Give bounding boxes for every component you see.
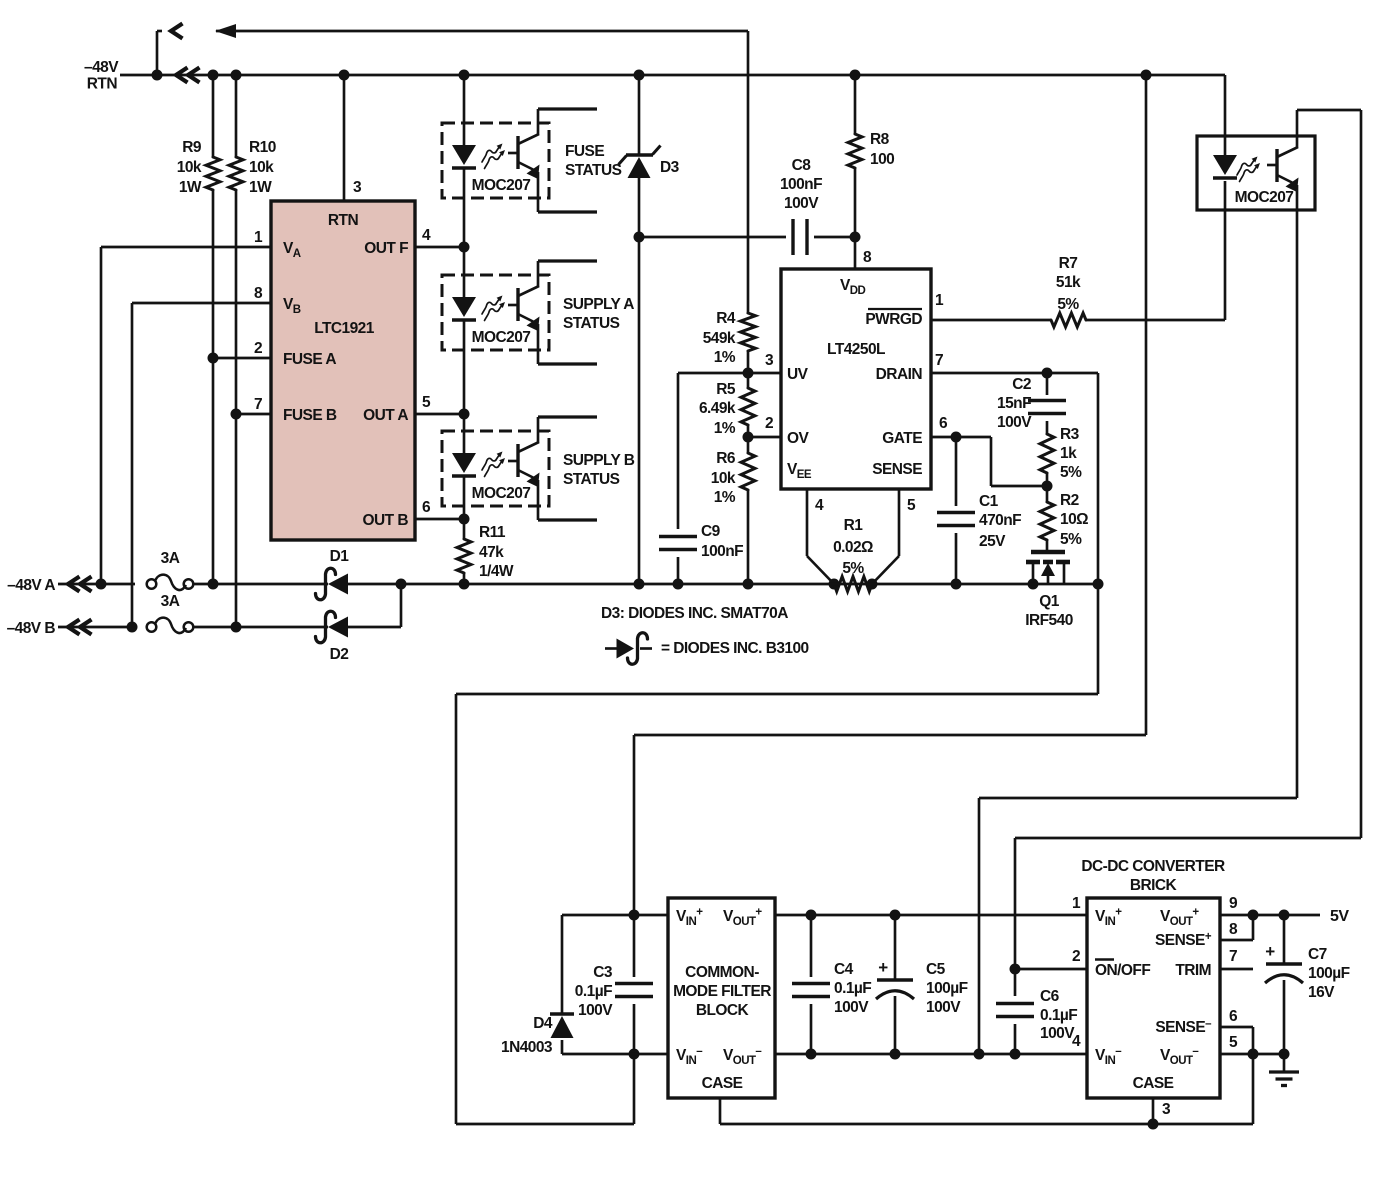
connector chevrons -48V A	[68, 577, 92, 592]
junction emitter loop / VOUT- row	[974, 1049, 985, 1060]
wire VOUT+ output	[1220, 914, 1320, 917]
junction C4 bottom	[806, 1049, 817, 1060]
svg-text:C3: C3	[593, 964, 613, 981]
wire stub up to top line	[156, 31, 159, 75]
ground symbol	[1269, 1054, 1299, 1086]
svg-text:1%: 1%	[714, 489, 736, 506]
junction C4 top	[806, 910, 817, 921]
label C7 100µF 16V	[1308, 946, 1350, 1001]
label GATE	[882, 430, 922, 447]
junction GATE / C1	[951, 432, 962, 443]
junction RTN / rail top	[1141, 70, 1152, 81]
svg-text:25V: 25V	[979, 533, 1006, 550]
junction D3 / rail	[634, 579, 645, 590]
junction UV node	[743, 368, 754, 379]
wire VIN+ row	[562, 914, 668, 917]
pin number 3 (CASE)	[1162, 1101, 1171, 1118]
diode D2 (B3100)	[316, 611, 349, 643]
label R7 51k 5%	[1056, 255, 1081, 313]
svg-text:1k: 1k	[1060, 445, 1077, 462]
svg-text:STATUS: STATUS	[563, 315, 620, 332]
label LTC1921	[314, 320, 375, 337]
svg-text:LT4250L: LT4250L	[827, 341, 885, 358]
junction VIN- node	[629, 1049, 640, 1060]
svg-text:C9: C9	[701, 523, 721, 540]
wire top return line (y=31)	[216, 30, 748, 33]
arrow on top return line	[215, 24, 236, 38]
wire R6 bottom to rail	[747, 490, 750, 584]
svg-text:100V: 100V	[926, 999, 961, 1016]
pin number 7 (FUSE B)	[254, 396, 262, 413]
junction C9 / rail	[673, 579, 684, 590]
junction R9 / rail A	[208, 579, 219, 590]
svg-text:COMMON-: COMMON-	[685, 964, 759, 981]
wire UV pin 3	[748, 372, 781, 375]
label R5 6.49k 1%	[699, 381, 736, 437]
svg-text:SENSE+: SENSE+	[1155, 931, 1212, 949]
label C2 15nF 100V	[997, 376, 1032, 431]
svg-text:16V: 16V	[1308, 984, 1335, 1001]
svg-text:GATE: GATE	[882, 430, 922, 447]
pin number 7 (DRAIN)	[935, 352, 943, 369]
junction R10 / rail B	[231, 622, 242, 633]
wire CASE line riser	[1252, 1054, 1255, 1124]
svg-text:R6: R6	[716, 450, 736, 467]
label D1	[330, 548, 350, 565]
svg-text:BLOCK: BLOCK	[696, 1002, 750, 1019]
resistor R2	[1040, 502, 1054, 540]
wire -48V A entry	[58, 583, 135, 586]
label VIN+ (brick)	[1095, 907, 1122, 929]
label R4 549k 1%	[703, 310, 736, 366]
label VOUT- (brick)	[1160, 1046, 1199, 1068]
label MOC207 (U2)	[472, 177, 531, 194]
label VOUT- (filter)	[723, 1046, 762, 1068]
wire R7 to opto LED	[1086, 181, 1225, 320]
label ON/OFF with overline	[1095, 960, 1150, 980]
svg-text:CASE: CASE	[702, 1075, 743, 1092]
svg-text:STATUS: STATUS	[565, 162, 622, 179]
svg-text:10Ω: 10Ω	[1060, 511, 1088, 528]
svg-text:3A: 3A	[161, 550, 180, 567]
resistor R8	[848, 134, 862, 168]
svg-text:7: 7	[254, 396, 262, 413]
wire RTN rail (y=75)	[120, 74, 1225, 77]
svg-text:BRICK: BRICK	[1130, 877, 1178, 894]
svg-text:MOC207: MOC207	[472, 177, 531, 194]
label C1 470nF 25V	[979, 493, 1021, 550]
wire C7 top	[1283, 915, 1286, 964]
wire C9 bottom	[677, 557, 680, 584]
wire R5 top	[747, 373, 750, 388]
junction OUT B	[459, 514, 470, 525]
wire RTN into U6 LED	[1224, 75, 1227, 156]
svg-text:DC-DC CONVERTER: DC-DC CONVERTER	[1081, 858, 1225, 875]
svg-text:D3: DIODES INC. SMAT70A: D3: DIODES INC. SMAT70A	[601, 605, 788, 622]
wire C1 top	[955, 437, 958, 506]
label C6 0.1µF 100V	[1040, 988, 1077, 1042]
wire C2 top	[1046, 373, 1049, 395]
svg-text:STATUS: STATUS	[563, 471, 620, 488]
label R2 10Ω 5%	[1060, 492, 1088, 548]
svg-text:= DIODES INC. B3100: = DIODES INC. B3100	[661, 640, 809, 657]
svg-text:7: 7	[1229, 948, 1237, 965]
junction C8 / R8 / VDD	[850, 232, 861, 243]
label SUPPLY A STATUS	[563, 296, 634, 332]
pin number 3 (UV)	[765, 352, 774, 369]
svg-text:100: 100	[870, 151, 894, 168]
svg-text:C8: C8	[792, 157, 812, 174]
junction C7 top	[1279, 910, 1290, 921]
label CASE (brick)	[1133, 1075, 1174, 1092]
diode D1 (B3100)	[316, 568, 349, 600]
pin number 3 (LTC1921)	[353, 179, 362, 196]
label 3A (F2)	[161, 593, 180, 610]
fuse F1 3A	[147, 575, 194, 590]
svg-text:+: +	[1265, 942, 1275, 961]
label FUSE STATUS	[565, 143, 622, 179]
junction DRAIN / C2	[1042, 368, 1053, 379]
pin number 2 (OV)	[765, 415, 773, 432]
connector chevrons -48V B	[68, 620, 92, 635]
svg-text:5%: 5%	[1057, 296, 1079, 313]
junction RTN stub	[152, 70, 163, 81]
wire C5 top	[894, 915, 897, 980]
junction Q1 source / rail	[1028, 579, 1039, 590]
wire opto chain LED1-OUTF	[463, 168, 466, 247]
phototransistor of U4	[508, 417, 597, 520]
svg-text:7: 7	[935, 352, 943, 369]
pin number 5 (OUT A)	[422, 394, 431, 411]
svg-text:D3: D3	[660, 159, 680, 176]
wire C3 bottom	[633, 1004, 636, 1054]
resistor R7	[1051, 313, 1086, 327]
wire D2 riser	[348, 584, 401, 627]
capacitor C1	[937, 513, 975, 526]
svg-text:5: 5	[1229, 1034, 1238, 1051]
wire UV to C9 branch	[678, 373, 748, 529]
svg-text:3A: 3A	[161, 593, 180, 610]
svg-text:4: 4	[815, 497, 824, 514]
capacitor C6	[996, 1004, 1034, 1017]
label MOC207 (U3)	[472, 329, 531, 346]
wire opto chain LED3-OUTB	[463, 476, 466, 519]
wire R11 bottom	[463, 573, 466, 584]
svg-text:D4: D4	[533, 1015, 553, 1032]
svg-text:1%: 1%	[714, 349, 736, 366]
label 3A (F1)	[161, 550, 180, 567]
wire C7 bottom	[1283, 980, 1286, 1054]
wire D3-C8	[639, 236, 786, 239]
wire -48V A rail (main)	[464, 583, 1098, 586]
wire VOUT+ row	[775, 914, 1087, 917]
label MOC207 (U6)	[1235, 189, 1294, 206]
wire C4 bottom	[810, 1004, 813, 1054]
connector chevrons on RTN rail	[176, 68, 200, 83]
svg-text:–48V A: –48V A	[7, 577, 55, 594]
wire OUT F pin 4	[415, 246, 464, 249]
svg-text:1W: 1W	[179, 179, 202, 196]
junction OV node	[743, 432, 754, 443]
svg-text:6: 6	[1229, 1008, 1238, 1025]
wire DRAIN pin 7	[931, 372, 1098, 375]
wire OV pin 2	[748, 436, 781, 439]
svg-text:SENSE: SENSE	[872, 461, 922, 478]
label VOUT+ (brick)	[1160, 907, 1199, 929]
svg-text:OUT F: OUT F	[364, 240, 408, 257]
label VA	[283, 240, 301, 260]
svg-text:15nF: 15nF	[997, 395, 1031, 412]
svg-text:2: 2	[254, 340, 262, 357]
junction SENSE- tie	[1248, 1049, 1259, 1060]
label R8 100	[870, 131, 894, 168]
wire PWRGD pin 1	[931, 319, 1051, 322]
label CASE (filter)	[702, 1075, 743, 1092]
optocoupler U2 MOC207 dashed box	[442, 123, 549, 198]
svg-text:470nF: 470nF	[979, 512, 1021, 529]
svg-text:47k: 47k	[479, 544, 504, 561]
wire opto chain segment 1	[463, 75, 466, 146]
wire OUT B to R11	[463, 519, 466, 539]
wire C4 top	[810, 915, 813, 977]
label VIN+ (filter)	[676, 907, 703, 929]
junction ON/OFF node	[1010, 964, 1021, 975]
junction SENSE+ tie	[1248, 910, 1259, 921]
label VDD	[840, 277, 866, 297]
svg-text:R1: R1	[844, 517, 864, 534]
wire R10 top	[235, 75, 238, 157]
phototransistor of U6	[1267, 110, 1299, 798]
svg-text:5: 5	[907, 497, 916, 514]
zener diode D3	[619, 146, 661, 179]
svg-text:4: 4	[422, 227, 431, 244]
LED of U6	[1213, 155, 1237, 178]
pin number 6 (GATE)	[939, 415, 948, 432]
svg-text:C6: C6	[1040, 988, 1060, 1005]
LED of U3	[452, 297, 476, 320]
pin number 1 (VIN+)	[1072, 895, 1081, 912]
label FUSE B	[283, 407, 337, 424]
LED of U4	[452, 453, 476, 476]
svg-text:CASE: CASE	[1133, 1075, 1174, 1092]
resistor R6	[741, 453, 755, 490]
svg-text:R9: R9	[182, 139, 202, 156]
svg-text:–48V B: –48V B	[7, 620, 56, 637]
junction R3 / R2 / gate drive	[1042, 481, 1053, 492]
resistor R3	[1040, 434, 1054, 473]
svg-text:MOC207: MOC207	[472, 329, 531, 346]
wire VA pin 1	[101, 247, 271, 584]
label DC-DC CONVERTER BRICK	[1081, 858, 1225, 894]
wire FUSE A pin 2	[213, 357, 271, 360]
wire FUSE B pin 7	[236, 413, 271, 416]
wire D4 branch	[561, 915, 564, 1054]
plus sign C7	[1265, 942, 1275, 961]
svg-text:10k: 10k	[177, 159, 202, 176]
wire D3 to node	[638, 177, 641, 237]
wire D3 top	[638, 75, 641, 155]
svg-text:100V: 100V	[997, 414, 1032, 431]
svg-text:1/4W: 1/4W	[479, 563, 514, 580]
junction RTN / opto chain	[459, 70, 470, 81]
junction RTN-R9	[208, 70, 219, 81]
pin number 2 (FUSE A)	[254, 340, 262, 357]
label OV	[787, 430, 810, 447]
label SUPPLY B STATUS	[563, 452, 635, 488]
svg-text:R5: R5	[716, 381, 736, 398]
wire C6 top	[1014, 969, 1017, 996]
resistor R5	[741, 388, 755, 425]
LED of U2	[452, 145, 476, 168]
light arrows of U2	[482, 144, 505, 169]
svg-text:5V: 5V	[1330, 908, 1349, 925]
label Q1 IRF540	[1025, 593, 1073, 629]
pin number 5 (SENSE)	[907, 497, 916, 514]
svg-text:FUSE: FUSE	[565, 143, 604, 160]
label OUT F	[364, 240, 408, 257]
label OUT A	[363, 407, 408, 424]
label MOC207 (U4)	[472, 485, 531, 502]
node 5V label	[1330, 908, 1349, 925]
wire LTC1921 pin 3 RTN	[343, 75, 346, 201]
label R11 47k 1/4W	[479, 524, 514, 580]
note D3 type	[601, 605, 788, 622]
svg-text:MODE FILTER: MODE FILTER	[673, 983, 771, 1000]
wire C5 bottom	[894, 996, 897, 1054]
capacitor C7 (electrolytic)	[1265, 964, 1303, 983]
svg-text:–48V: –48V	[84, 59, 119, 76]
wire R6 top	[747, 437, 750, 453]
junction RTN-pin3	[339, 70, 350, 81]
IC U5 LT4250L body	[781, 269, 931, 489]
pin number 7 (TRIM)	[1229, 948, 1237, 965]
svg-text:MOC207: MOC207	[1235, 189, 1294, 206]
pin number 8 (VDD)	[863, 249, 872, 266]
label C9 100nF	[701, 523, 743, 560]
svg-text:100µF: 100µF	[1308, 965, 1350, 982]
label DRAIN	[876, 366, 923, 383]
wire SENSE pin 5	[872, 489, 899, 584]
svg-text:C5: C5	[926, 961, 946, 978]
wire R8 bottom	[854, 168, 857, 237]
label COMMON-MODE FILTER BLOCK	[673, 964, 771, 1019]
svg-text:100V: 100V	[784, 195, 819, 212]
wire VOUT- output	[1220, 1053, 1284, 1056]
svg-text:3: 3	[1162, 1101, 1171, 1118]
svg-text:0.02Ω: 0.02Ω	[833, 539, 873, 556]
resistor R11	[457, 539, 471, 573]
wire brick CASE pin 3	[1152, 1098, 1155, 1124]
wire opto chain OUTA-LED3	[463, 414, 466, 454]
wire C2-R3	[1046, 421, 1049, 434]
pin number 4 (VIN-)	[1072, 1033, 1081, 1050]
svg-text:100nF: 100nF	[701, 543, 743, 560]
IC U1 LTC1921 body	[271, 201, 415, 540]
wire opto chain LED2-OUTA	[463, 320, 466, 414]
label TRIM (brick)	[1175, 962, 1211, 979]
resistor R10	[229, 157, 243, 190]
pin number 4 (VEE)	[815, 497, 824, 514]
transistor Q1 IRF540	[1026, 552, 1070, 584]
wire TRIM stub	[1220, 968, 1253, 971]
svg-text:6.49k: 6.49k	[699, 400, 736, 417]
diode D4 1N4003	[550, 1014, 574, 1038]
pin number 4 (OUT F)	[422, 227, 431, 244]
svg-text:SUPPLY B: SUPPLY B	[563, 452, 635, 469]
wire -48V B entry	[58, 626, 135, 629]
junction R1 right	[867, 579, 878, 590]
svg-text:6: 6	[939, 415, 948, 432]
optocoupler U4 MOC207 dashed box	[442, 431, 549, 506]
capacitor C5 (electrolytic)	[876, 980, 914, 999]
label VB	[283, 296, 301, 316]
svg-text:R4: R4	[716, 310, 736, 327]
pin number 2 (ON/OFF)	[1072, 948, 1080, 965]
svg-text:R7: R7	[1059, 255, 1078, 272]
svg-text:100V: 100V	[578, 1002, 613, 1019]
pin number 9 (VOUT+)	[1229, 895, 1238, 912]
filter block body	[668, 898, 775, 1098]
label D2	[330, 646, 349, 663]
svg-text:IRF540: IRF540	[1025, 612, 1073, 629]
junction RTN-R10	[231, 70, 242, 81]
wire C1 bottom	[955, 533, 958, 584]
label C4 0.1µF 100V	[834, 961, 871, 1016]
junction C5 top	[890, 910, 901, 921]
label PWRGD with overline	[865, 309, 922, 328]
svg-text:R8: R8	[870, 131, 890, 148]
wire C3 top	[633, 915, 636, 977]
label VIN- (filter)	[676, 1046, 703, 1068]
svg-text:C2: C2	[1012, 376, 1031, 393]
svg-text:8: 8	[863, 249, 872, 266]
svg-text:Q1: Q1	[1039, 593, 1060, 610]
svg-text:5%: 5%	[1060, 464, 1082, 481]
wire fuse A to D1	[194, 583, 328, 586]
svg-text:1: 1	[254, 229, 263, 246]
junction R11 / -48V A rail	[459, 579, 470, 590]
connector chevron top line	[157, 24, 183, 39]
wire C8-R8node	[814, 236, 855, 239]
wire R2 to Q1 gate	[1046, 540, 1049, 551]
label VEE	[787, 461, 812, 481]
label LT4250L	[827, 341, 885, 358]
wire top line drop to R4 (x=748)	[747, 31, 750, 314]
svg-text:0.1µF: 0.1µF	[834, 980, 871, 997]
svg-text:TRIM: TRIM	[1175, 962, 1211, 979]
label OUT B	[363, 512, 409, 529]
wire fuse B to D2	[194, 626, 328, 629]
junction VB tap	[127, 622, 138, 633]
svg-text:C4: C4	[834, 961, 854, 978]
node -48V B label	[7, 620, 56, 637]
junction C5 bottom	[890, 1049, 901, 1060]
svg-text:SENSE–: SENSE–	[1155, 1018, 1212, 1036]
plus sign C5	[878, 958, 888, 977]
wire filter CASE	[720, 1098, 1253, 1124]
junction FUSE A / R9	[208, 353, 219, 364]
svg-text:8: 8	[1229, 921, 1238, 938]
svg-text:2: 2	[765, 415, 773, 432]
svg-text:5%: 5%	[1060, 531, 1082, 548]
light arrows of U3	[482, 296, 505, 321]
svg-text:R2: R2	[1060, 492, 1079, 509]
svg-text:0.1µF: 0.1µF	[575, 983, 612, 1000]
wire C6 bottom	[1014, 1024, 1017, 1054]
label R9 10k 1W	[177, 139, 202, 196]
label D4 1N4003	[501, 1015, 553, 1056]
label VIN- (brick)	[1095, 1046, 1122, 1068]
